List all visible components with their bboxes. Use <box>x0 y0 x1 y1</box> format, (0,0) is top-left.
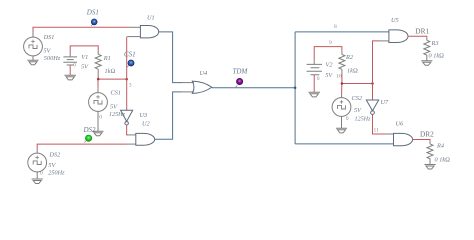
wire V2 to ground <box>313 75 315 92</box>
resistor R4 <box>427 144 433 165</box>
junction <box>341 82 344 85</box>
svg-text:DR2: DR2 <box>420 131 434 138</box>
AND gate U5 <box>389 30 408 43</box>
svg-text:CS1: CS1 <box>124 50 136 58</box>
svg-text:U5: U5 <box>391 17 399 24</box>
source CS2 <box>332 98 351 129</box>
probe DS2 <box>84 141 86 143</box>
svg-text:250Hz: 250Hz <box>48 170 65 177</box>
probe TDM <box>236 85 238 87</box>
svg-text:R1: R1 <box>103 55 111 62</box>
wire V1 to ground <box>69 65 71 75</box>
svg-text:3: 3 <box>129 82 132 88</box>
wire bus vertical <box>294 32 296 144</box>
svg-text:DS1: DS1 <box>86 8 99 16</box>
svg-text:16: 16 <box>336 74 342 80</box>
ground (R4) <box>424 165 435 170</box>
ground (R3) <box>421 61 432 66</box>
wire net3 horizontal <box>98 78 127 80</box>
svg-text:5V: 5V <box>81 63 89 70</box>
svg-text:DR1: DR1 <box>415 29 429 36</box>
svg-text:0: 0 <box>73 63 76 69</box>
wire U3 out to U2.a <box>127 125 128 135</box>
AND gate U1 <box>140 26 158 38</box>
AND gate U2 <box>136 133 155 145</box>
ground (DS2) <box>32 179 43 184</box>
svg-text:U1: U1 <box>147 15 155 22</box>
source CS1 <box>89 93 108 132</box>
svg-text:CS2: CS2 <box>352 95 363 102</box>
junction <box>125 78 128 81</box>
svg-text:5V: 5V <box>43 47 51 54</box>
wire DR1 <box>408 36 427 38</box>
svg-text:5V: 5V <box>325 72 333 79</box>
ground (CS2) <box>336 128 347 133</box>
wire DS2 to U2.b <box>37 144 126 149</box>
svg-text:V1: V1 <box>81 54 88 61</box>
svg-text:0: 0 <box>346 116 349 122</box>
svg-text:U2: U2 <box>142 120 151 127</box>
wire DS1 to U1.a <box>33 27 131 32</box>
junction <box>371 82 374 85</box>
svg-text:DS1: DS1 <box>43 34 55 41</box>
junction <box>97 78 100 81</box>
battery V2 <box>307 64 322 74</box>
wire U1 out <box>159 32 182 83</box>
wire R1 bottom <box>97 69 99 74</box>
svg-text:0: 0 <box>40 171 43 177</box>
svg-text:U6: U6 <box>396 121 405 128</box>
svg-text:5V: 5V <box>110 103 118 110</box>
AND gate U6 <box>394 133 413 145</box>
wire CS1 top <box>97 79 99 88</box>
svg-text:0 1kΩ: 0 1kΩ <box>435 157 451 164</box>
ground (V2) <box>308 92 320 97</box>
wire U1.b vertical <box>127 36 140 38</box>
resistor R1 1kOhm <box>95 54 101 69</box>
wire V1 to R1 <box>70 46 98 53</box>
resistor R2 1kOhm <box>339 54 345 69</box>
wire TDM <box>212 87 295 89</box>
wire V2 to R2 <box>314 47 342 61</box>
svg-text:TDM: TDM <box>233 67 249 75</box>
inverter U3 <box>121 110 133 125</box>
svg-text:1kΩ: 1kΩ <box>105 68 116 75</box>
svg-text:CS1: CS1 <box>111 89 122 96</box>
wire R2 bottom <box>341 69 343 74</box>
OR gate U4 <box>192 81 212 93</box>
svg-text:0: 0 <box>99 115 102 121</box>
svg-text:0: 0 <box>317 76 320 82</box>
ground (DS1) <box>27 56 38 65</box>
svg-text:R4: R4 <box>436 143 444 150</box>
junction <box>294 86 297 89</box>
ground (CS1) <box>92 131 103 136</box>
wire bottom to U6.b <box>295 143 393 145</box>
source DS1 <box>24 37 43 56</box>
wire U7 out to U6.a <box>373 115 385 135</box>
source DS2 <box>28 153 47 179</box>
probe DS1 <box>91 24 93 26</box>
svg-text:R3: R3 <box>431 40 439 47</box>
wire top to U5.a <box>295 31 389 33</box>
svg-text:V2: V2 <box>325 61 333 68</box>
svg-text:U4: U4 <box>200 70 208 77</box>
svg-text:500Hz: 500Hz <box>44 55 61 62</box>
svg-text:5V: 5V <box>354 107 362 114</box>
svg-text:DS2: DS2 <box>83 126 97 134</box>
wire U2 out <box>155 92 182 139</box>
wire CS2 top <box>341 84 343 94</box>
svg-text:1kΩ: 1kΩ <box>347 68 358 75</box>
wire net right horizontal <box>342 83 373 85</box>
battery V1 <box>63 57 77 65</box>
wire DR2 <box>413 140 430 142</box>
svg-text:8: 8 <box>334 24 337 30</box>
svg-text:9: 9 <box>329 40 332 46</box>
svg-text:U7: U7 <box>381 99 390 106</box>
svg-text:DS2: DS2 <box>48 151 61 158</box>
svg-text:11: 11 <box>374 128 380 134</box>
svg-text:U3: U3 <box>140 112 148 119</box>
inverter U7 <box>366 100 378 114</box>
wire to U5.b and U7 <box>373 41 380 100</box>
resistor R3 <box>424 40 430 61</box>
probe CS1 <box>127 66 129 68</box>
svg-text:R2: R2 <box>345 54 354 61</box>
svg-text:5V: 5V <box>48 162 56 169</box>
svg-text:125Hz: 125Hz <box>355 115 372 122</box>
ground (V1) <box>64 75 76 80</box>
svg-text:0 1kΩ: 0 1kΩ <box>429 52 445 59</box>
